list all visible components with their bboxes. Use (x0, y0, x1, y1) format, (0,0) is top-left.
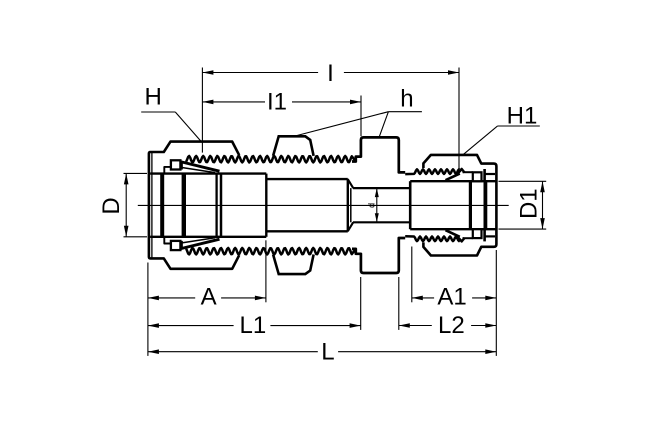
svg-text:H: H (145, 83, 162, 110)
dimension D1 witness lines (499, 180, 547, 182)
neck ring edge (350, 188, 352, 222)
label h leader to hex flat (297, 112, 388, 136)
dimension I line (202, 72, 318, 74)
left front ferrule bottom (181, 239, 219, 248)
left bore vertical rear ferrule face (160, 174, 164, 237)
label H leader (141, 111, 175, 113)
right compression nut outline (423, 155, 496, 256)
dimension I1 extension line right (360, 96, 362, 137)
right nut internal step top (483, 169, 486, 181)
body stem top line (266, 178, 348, 180)
svg-text:A: A (201, 284, 217, 311)
svg-text:L2: L2 (438, 312, 465, 339)
body collar right edge (265, 174, 267, 237)
svg-text:I1: I1 (267, 89, 287, 116)
dimension L2 line (399, 325, 432, 327)
label H1 leader (498, 125, 540, 127)
left nut face inner line (151, 153, 153, 258)
bulkhead locknut bottom profile (352, 238, 405, 273)
body hex flat top (273, 136, 314, 156)
svg-text:L1: L1 (240, 312, 267, 339)
dimension I extension line right (458, 68, 460, 170)
left back ferrule bottom (171, 241, 181, 250)
dimension D witness lines (124, 172, 148, 174)
dimension A line (148, 297, 195, 299)
left front ferrule top (181, 162, 219, 171)
dimension L1 extension line right (360, 277, 362, 330)
right back ferrule top (473, 172, 482, 181)
body hex flat bottom (273, 255, 314, 275)
dimension A extension line left shared (147, 263, 149, 356)
left tube end face (215, 174, 217, 237)
svg-text:h: h (400, 86, 413, 113)
left tube outer diameter top line (150, 172, 266, 174)
bulkhead locknut top profile (352, 137, 405, 172)
left nut internal step bottom (164, 237, 171, 243)
right tube outer diameter top line (410, 180, 496, 182)
left bore vertical front ferrule face (182, 174, 186, 237)
dimension d line (376, 188, 378, 222)
svg-text:I: I (327, 60, 334, 87)
right body thread wave top (405, 169, 459, 174)
right bore vertical rear ferrule face (469, 181, 472, 229)
right front ferrule taper top (446, 174, 460, 181)
dimension A extension line right (265, 240, 267, 302)
svg-text:D: D (98, 197, 125, 214)
right front ferrule taper bottom (446, 230, 460, 237)
dimension L2 extension line left (398, 277, 400, 330)
label h leader shelf (388, 111, 422, 113)
body stem right face (347, 179, 349, 231)
left body thread wave bottom (186, 248, 356, 254)
right tube outer diameter bottom line (410, 228, 496, 230)
left back ferrule top (171, 160, 181, 169)
left body thread wave top (186, 156, 356, 162)
left nut internal step top (164, 167, 171, 173)
dimension D line (125, 173, 127, 236)
neck chamfer top (348, 179, 354, 188)
dimension I extension line left (201, 68, 203, 153)
svg-text:D1: D1 (516, 188, 543, 219)
dimension A1 extension line left (411, 247, 413, 303)
right tube end face (409, 181, 412, 229)
dimension D1 line (542, 181, 544, 229)
right bore vertical front ferrule face (483, 181, 487, 229)
dimension I1 line (202, 101, 265, 103)
right back ferrule bottom (473, 229, 482, 238)
svg-text:L: L (321, 338, 334, 365)
label h leader to locknut (379, 112, 388, 137)
neck chamfer bottom (348, 222, 354, 231)
left tube outer diameter bottom line (150, 236, 266, 238)
body shoulder face (220, 174, 223, 237)
centerline of fitting axis (138, 204, 509, 206)
dimension L1 line (148, 325, 234, 327)
body stem bottom line (266, 230, 348, 232)
right body thread wave bottom (405, 236, 459, 241)
right front ferrule tip tooth top (457, 169, 464, 174)
neck tube top line (353, 187, 410, 189)
right front ferrule tip tooth bottom (457, 236, 464, 241)
dimension A1 line (412, 297, 434, 299)
dimension L extension line right shared (495, 250, 497, 356)
svg-text:A1: A1 (437, 284, 466, 311)
right nut internal step bottom (483, 229, 486, 241)
left compression nut outline (149, 142, 239, 269)
svg-text:d: d (367, 203, 377, 208)
dimension L line (148, 351, 318, 353)
neck tube bottom line (353, 221, 410, 223)
